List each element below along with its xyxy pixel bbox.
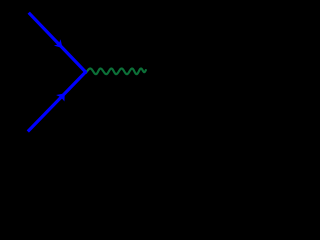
Feynman diagram: e+ e- annihilation into a photon xyxy=(0,0,249,149)
fermion line: incoming electron (top-left to vertex) xyxy=(29,13,86,72)
fermion line: incoming positron (bottom-left to vertex) xyxy=(28,72,86,132)
photon wavy line (gamma) xyxy=(86,69,146,75)
vertex joint xyxy=(84,70,87,73)
arrow on top fermion line (points toward vertex) xyxy=(54,39,66,51)
arrow on bottom fermion line (points toward vertex) xyxy=(56,90,69,102)
